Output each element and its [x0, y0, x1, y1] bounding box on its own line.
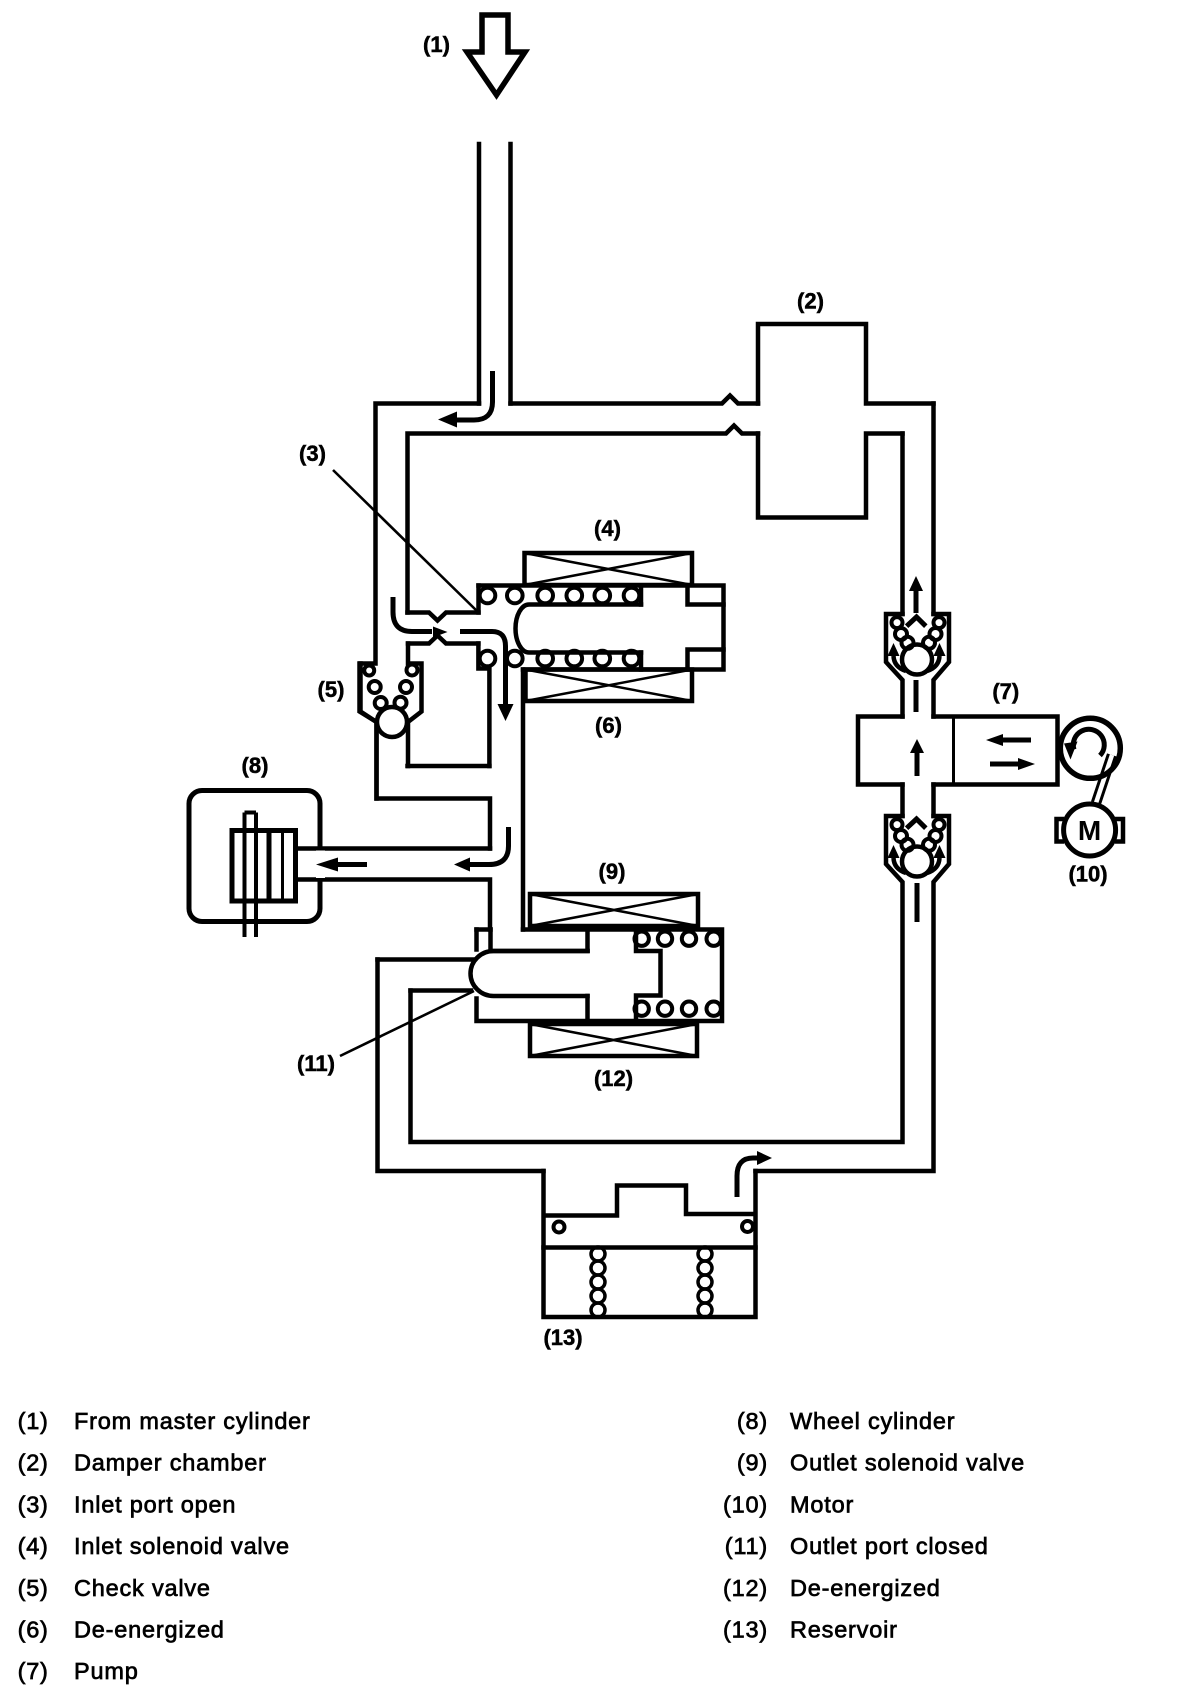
svg-text:(12): (12) [594, 1066, 633, 1091]
svg-text:(10): (10) [1068, 862, 1107, 887]
svg-text:(3): (3) [18, 1491, 49, 1517]
svg-text:(5): (5) [318, 677, 345, 702]
svg-text:Motor: Motor [790, 1491, 854, 1517]
svg-text:(5): (5) [18, 1575, 49, 1601]
svg-text:Outlet solenoid valve: Outlet solenoid valve [790, 1450, 1025, 1476]
svg-text:Check valve: Check valve [74, 1575, 211, 1601]
svg-text:(3): (3) [299, 441, 326, 466]
svg-text:Pump: Pump [74, 1658, 139, 1684]
svg-text:(9): (9) [599, 859, 626, 884]
svg-text:De-energized: De-energized [74, 1617, 225, 1643]
svg-text:(2): (2) [18, 1450, 49, 1476]
svg-text:Inlet port open: Inlet port open [74, 1491, 236, 1517]
svg-text:(9): (9) [737, 1450, 768, 1476]
svg-text:From master cylinder: From master cylinder [74, 1408, 311, 1434]
svg-text:Reservoir: Reservoir [790, 1617, 898, 1643]
svg-text:(13): (13) [723, 1617, 768, 1643]
svg-text:M: M [1078, 815, 1101, 846]
svg-text:(8): (8) [737, 1408, 768, 1434]
svg-text:(8): (8) [242, 753, 269, 778]
svg-text:(1): (1) [423, 32, 450, 57]
svg-text:(11): (11) [297, 1051, 335, 1076]
svg-text:(4): (4) [18, 1533, 49, 1559]
svg-text:(13): (13) [543, 1325, 582, 1350]
svg-text:(2): (2) [797, 289, 824, 314]
svg-text:(4): (4) [594, 516, 621, 541]
svg-text:(7): (7) [992, 679, 1019, 704]
svg-text:(7): (7) [18, 1658, 49, 1684]
svg-text:Inlet solenoid valve: Inlet solenoid valve [74, 1533, 290, 1559]
svg-text:De-energized: De-energized [790, 1575, 941, 1601]
svg-text:(10): (10) [723, 1491, 768, 1517]
svg-text:(11): (11) [725, 1533, 768, 1559]
svg-text:Damper chamber: Damper chamber [74, 1450, 267, 1476]
svg-text:(1): (1) [18, 1408, 49, 1434]
svg-text:Outlet port closed: Outlet port closed [790, 1533, 989, 1559]
svg-text:(12): (12) [723, 1575, 768, 1601]
svg-text:(6): (6) [595, 713, 622, 738]
svg-text:Wheel cylinder: Wheel cylinder [790, 1408, 955, 1434]
svg-text:(6): (6) [18, 1617, 49, 1643]
